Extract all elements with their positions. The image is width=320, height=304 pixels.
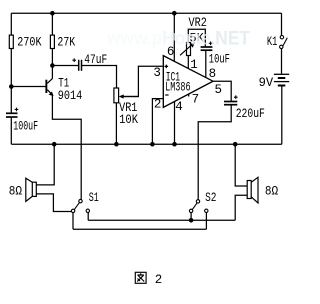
svg-text:3: 3	[153, 66, 161, 80]
node top rail 27K	[50, 11, 55, 16]
potentiometer VR1 body	[114, 88, 119, 103]
wire top rail	[11, 12, 281, 14]
node rail pin2	[150, 142, 155, 147]
capacitor C2 47uF	[72, 58, 81, 70]
svg-text:S1: S1	[89, 191, 99, 205]
svg-text:220uF: 220uF	[236, 107, 265, 121]
capacitor C3 10uF	[201, 42, 213, 51]
switch S2	[189, 200, 208, 213]
wire base	[11, 86, 45, 88]
wire S1 common up	[72, 213, 74, 230]
wire K1 branch	[281, 13, 283, 74]
node collector 47uF	[50, 63, 55, 68]
wire pin2	[152, 99, 163, 145]
node wireA S2	[189, 218, 194, 223]
svg-text:LM386: LM386	[165, 81, 191, 95]
wire bottom rail	[11, 143, 282, 145]
wire S2 right drop	[205, 213, 207, 230]
transistor Q1 T1 9014	[45, 79, 53, 96]
node rail speaker-left	[52, 142, 57, 147]
wire battery to rail	[281, 87, 283, 145]
VR2 adjust arrow	[180, 42, 195, 55]
capacitor C4 220uF	[224, 95, 238, 104]
speaker SP2 right	[247, 177, 258, 203]
svg-text:5: 5	[215, 83, 223, 97]
wire pin5 out	[213, 81, 231, 101]
svg-text:2: 2	[155, 273, 163, 287]
op-amp U1 IC1 LM386 triangle	[163, 56, 213, 108]
svg-text:100uF: 100uF	[13, 120, 38, 134]
switch K1	[280, 36, 288, 49]
svg-text:S2: S2	[205, 191, 216, 205]
op-amp minus input mark	[165, 94, 168, 96]
wire collector vertical	[51, 66, 53, 79]
node rail VR1	[114, 142, 119, 147]
op-amp plus input mark	[165, 65, 169, 69]
watermark lightening over pin6 wire	[173, 33, 175, 41]
svg-text:2: 2	[154, 98, 162, 112]
VR1 wiper arrow	[119, 94, 124, 98]
capacitor C1 100uF	[6, 108, 18, 117]
node top rail pin6	[172, 11, 177, 16]
svg-text:8Ω: 8Ω	[265, 185, 279, 199]
node base	[9, 84, 14, 89]
wire pin7 stub	[188, 92, 190, 97]
node rail pin4	[172, 142, 177, 147]
svg-text:270K: 270K	[17, 35, 42, 49]
wire left vertical mid	[10, 49, 12, 113]
wire A S1-S2-speaker	[88, 219, 235, 221]
wire left speaker top	[36, 144, 54, 185]
svg-text:K1: K1	[267, 35, 277, 49]
wire right speaker top	[235, 144, 247, 186]
wire pin4	[174, 102, 176, 145]
wire 47uF right to VR1 top	[82, 66, 117, 89]
wire emitter vertical and run to S1	[52, 95, 81, 200]
svg-text:9014: 9014	[58, 89, 83, 103]
wire pin1 to VR2	[187, 56, 189, 69]
wire VR2 top bridge to 10uF	[188, 29, 205, 46]
wire B lower	[73, 228, 206, 230]
svg-text:9V: 9V	[259, 76, 274, 90]
wire VR1 wiper to pin3	[122, 66, 163, 96]
resistor R2 27K body	[50, 35, 54, 48]
svg-text:27K: 27K	[57, 36, 75, 50]
potentiometer VR2 body	[187, 43, 191, 56]
wire 220uF bottom to S2	[198, 105, 231, 199]
wire 47uF left	[52, 65, 78, 67]
wire pin6	[173, 13, 175, 61]
svg-text:4: 4	[175, 100, 183, 114]
svg-text:1: 1	[190, 58, 198, 72]
svg-text:10uF: 10uF	[209, 53, 230, 67]
wire S1 right drop	[87, 213, 89, 221]
svg-text:7: 7	[192, 93, 200, 107]
wire right speaker bottom	[235, 195, 247, 220]
svg-text:10K: 10K	[119, 113, 138, 127]
speaker SP1 left	[26, 178, 37, 201]
svg-text:www.pHome.NET: www.pHome.NET	[106, 29, 250, 50]
wire left speaker bottom	[36, 194, 71, 212]
wire left vertical upper	[10, 13, 12, 35]
svg-text:47uF: 47uF	[84, 53, 107, 67]
wire VR1 bottom	[115, 103, 117, 144]
resistor R1 270K body	[9, 35, 13, 48]
node rail speaker-right	[233, 142, 238, 147]
svg-text:8Ω: 8Ω	[9, 184, 23, 198]
wire left vertical lower	[10, 118, 12, 145]
switch S1	[71, 199, 89, 212]
svg-text:8: 8	[209, 67, 217, 81]
caption figure 2	[135, 272, 162, 287]
wire S2 mid drop	[190, 213, 192, 221]
wire pin8 to 10uF	[205, 51, 207, 78]
wire 27K branch	[51, 13, 53, 65]
battery B1 9V	[274, 74, 289, 86]
